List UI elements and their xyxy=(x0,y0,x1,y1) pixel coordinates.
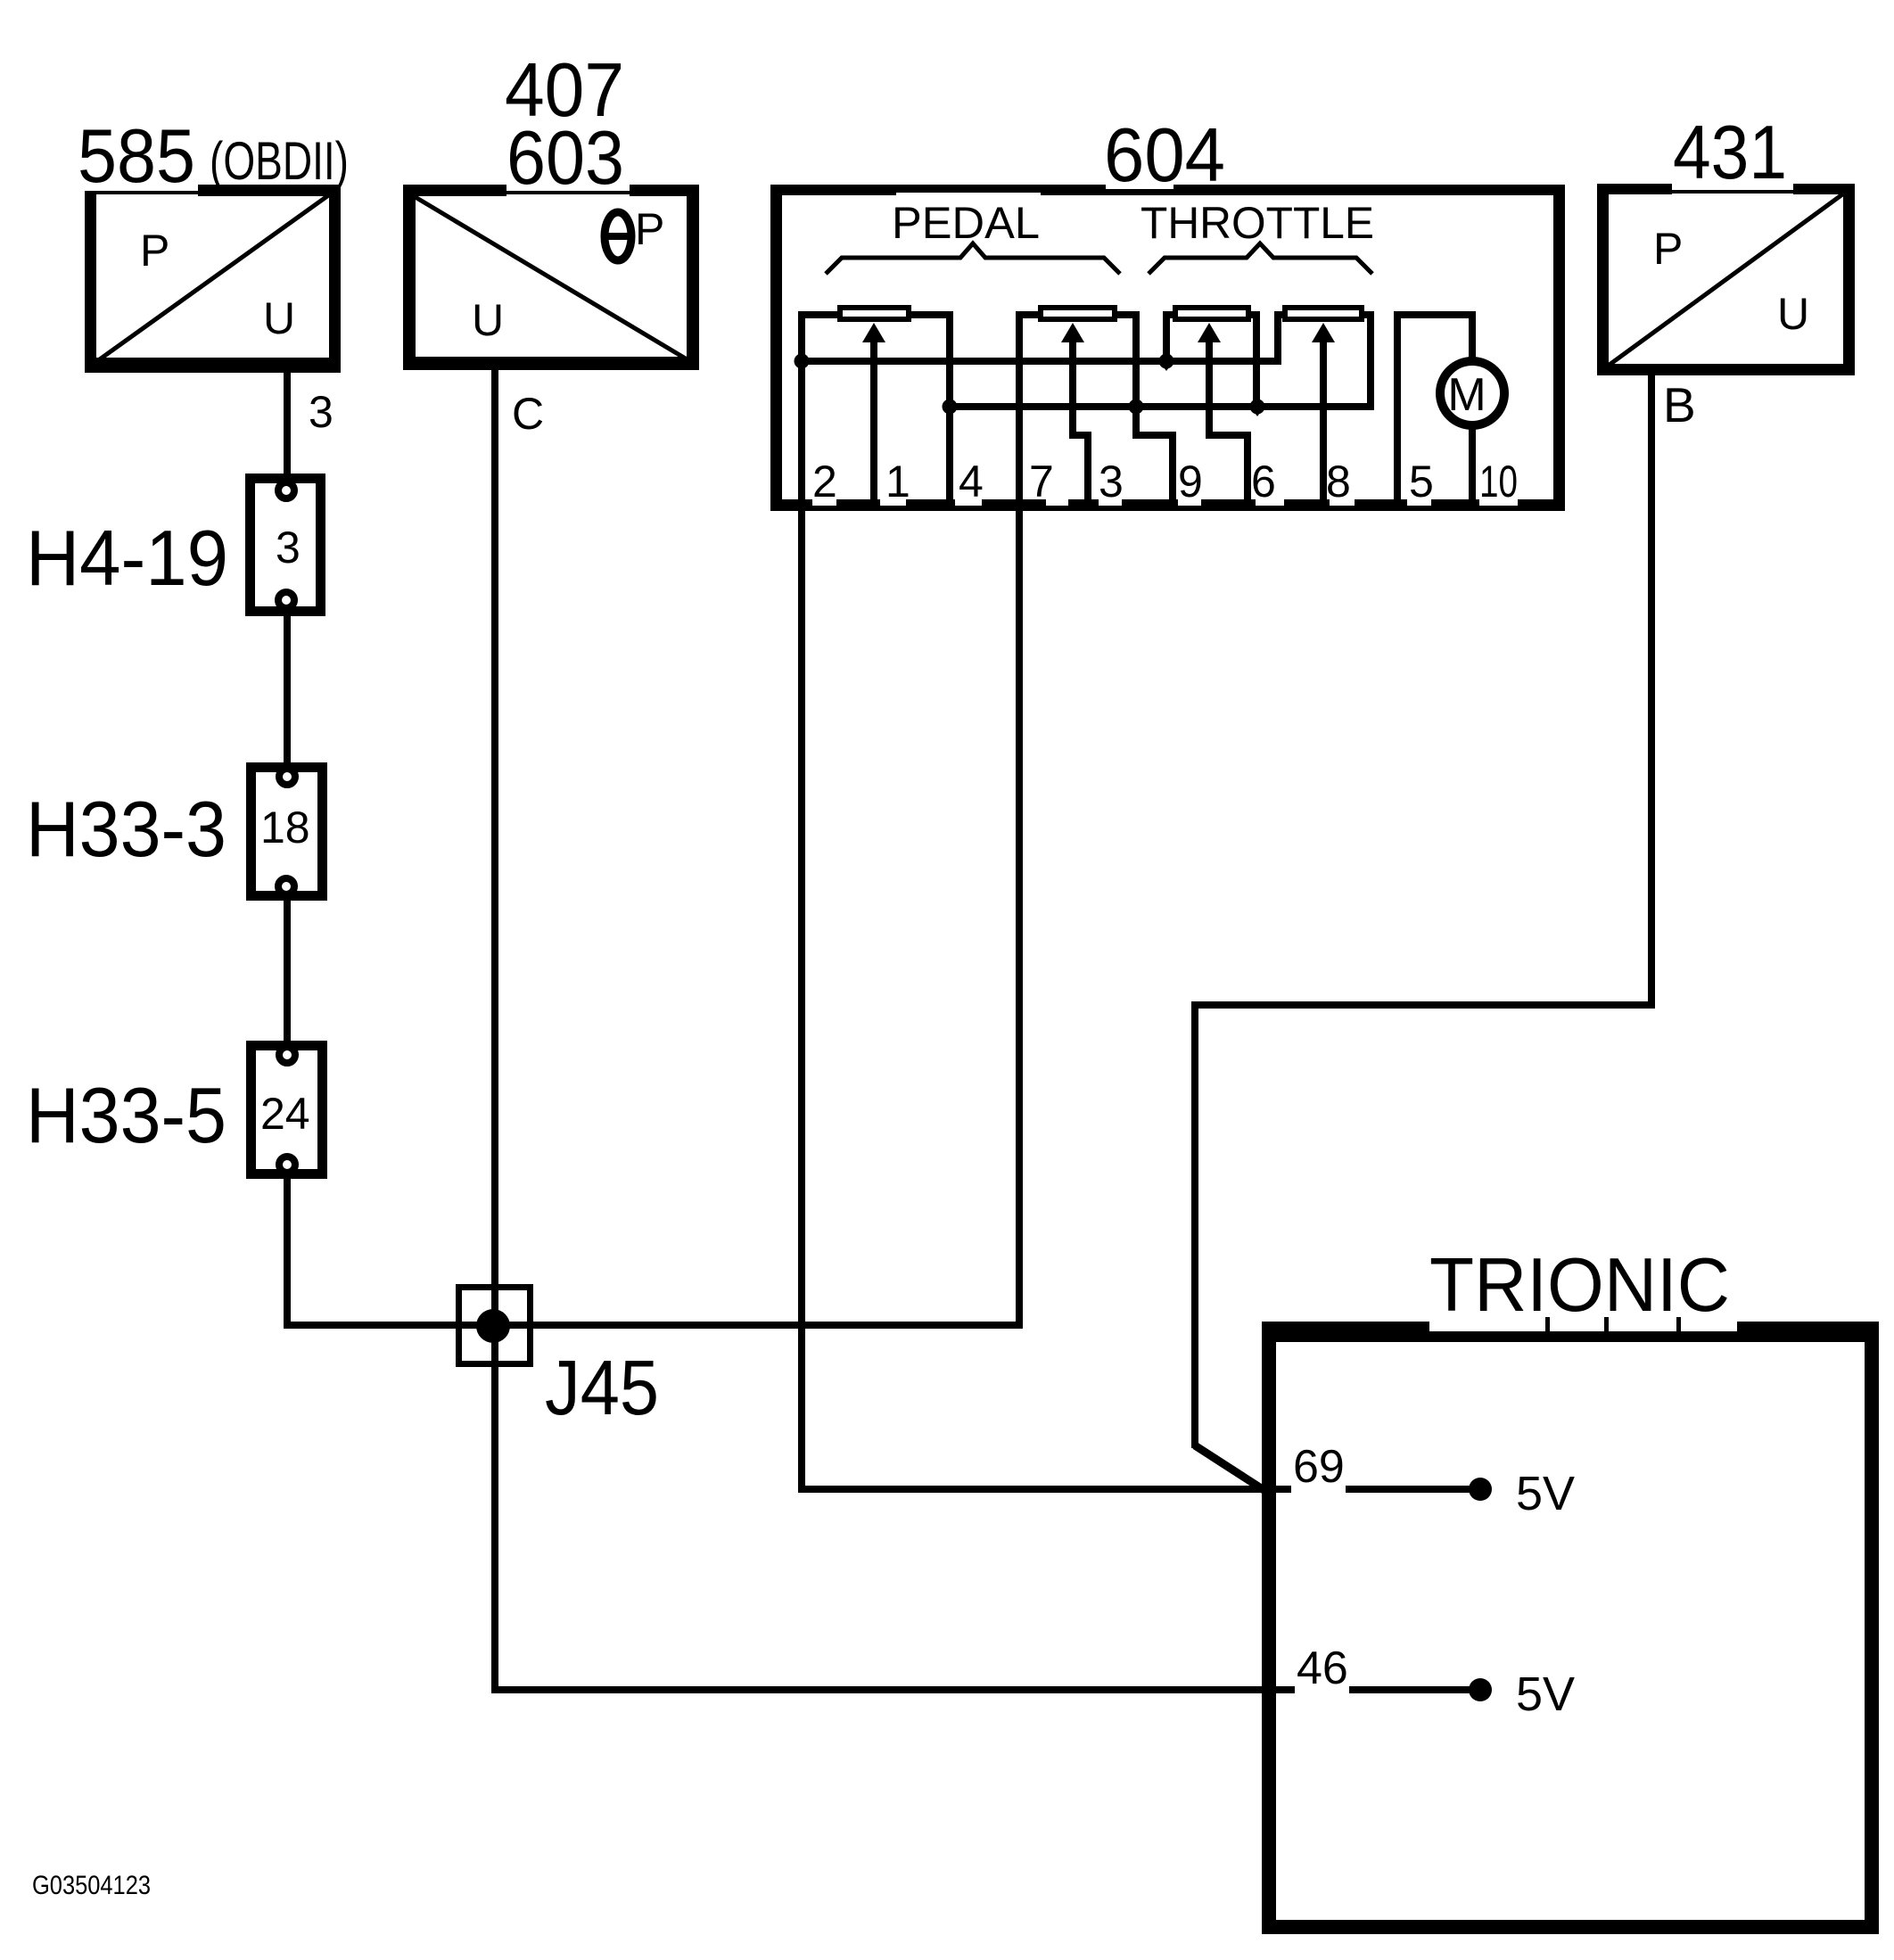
svg-text:24: 24 xyxy=(260,1089,310,1139)
connector H33-3 xyxy=(251,768,323,896)
junction dot bus2 x pot1 right xyxy=(943,399,958,415)
svg-text:M: M xyxy=(1447,369,1486,421)
svg-text:TRIONIC: TRIONIC xyxy=(1429,1243,1730,1328)
node 46 5V dot xyxy=(1469,1678,1492,1701)
theta-P symbol xyxy=(605,212,631,260)
brace under THROTTLE xyxy=(1149,243,1372,274)
pot P3 wiper wire to pin 6 xyxy=(1206,336,1213,439)
svg-text:5V: 5V xyxy=(1516,1668,1575,1721)
svg-text:H33-3: H33-3 xyxy=(26,785,226,873)
pot P2 left lead stub (pin 7) xyxy=(1016,311,1042,318)
connector H4-19 xyxy=(251,479,321,612)
wire horizontal run to J45 and pin7 riser corner xyxy=(284,1322,1023,1329)
svg-text:H4-19: H4-19 xyxy=(26,514,228,602)
svg-text:U: U xyxy=(472,295,504,345)
svg-text:69: 69 xyxy=(1293,1441,1345,1493)
svg-text:5V: 5V xyxy=(1516,1467,1575,1520)
svg-text:10: 10 xyxy=(1479,457,1518,506)
node 69 5V dot xyxy=(1469,1478,1492,1501)
svg-text:2: 2 xyxy=(812,457,837,506)
svg-text:H33-5: H33-5 xyxy=(26,1071,226,1159)
wire 604 pin 7 riser xyxy=(1016,314,1023,1329)
pot P4 wiper wire to pin 8 xyxy=(1320,336,1327,499)
431 box xyxy=(1597,190,1855,194)
svg-text:585: 585 xyxy=(78,114,195,199)
svg-text:7: 7 xyxy=(1029,457,1054,506)
svg-text:604: 604 xyxy=(1104,113,1225,198)
svg-text:9: 9 xyxy=(1178,457,1203,506)
svg-text:P: P xyxy=(635,204,664,254)
junction J45 square xyxy=(459,1288,531,1364)
junction dot bus1 x pin2 xyxy=(795,354,810,369)
svg-text:8: 8 xyxy=(1326,457,1351,506)
svg-text:5: 5 xyxy=(1409,457,1434,506)
motor loop pin 5 xyxy=(1394,311,1401,499)
svg-text:THROTTLE: THROTTLE xyxy=(1141,198,1374,248)
svg-text:18: 18 xyxy=(260,803,310,852)
svg-text:6: 6 xyxy=(1251,457,1276,506)
motor bottom wire to pin 10 xyxy=(1469,421,1476,499)
wire B diagonal into TRIONIC pin 69 xyxy=(1195,1445,1265,1491)
TRIONIC box xyxy=(1262,1322,1879,1342)
junction dot bus1 x pot3 left xyxy=(1159,354,1174,369)
diagonal 585 xyxy=(91,192,334,366)
potentiometer P3 xyxy=(1175,308,1248,319)
wire B second vertical xyxy=(1191,1001,1198,1448)
603 box xyxy=(403,191,699,194)
585 box xyxy=(85,191,198,194)
pot P1 right lead to pin 4 xyxy=(908,311,953,318)
white gap under 69 label xyxy=(1291,1484,1346,1495)
wire 603 pin C vertical through J45 down to 46 run xyxy=(491,363,498,1693)
pot P4 right lead to bus 2 xyxy=(1361,311,1374,318)
svg-text:3: 3 xyxy=(276,523,301,572)
svg-text:603: 603 xyxy=(506,116,624,201)
junction dot bus2 x pot3 right xyxy=(1250,399,1265,415)
svg-text:B: B xyxy=(1663,377,1696,432)
pot P3 left lead to bus 1 xyxy=(1163,311,1176,318)
svg-text:C: C xyxy=(512,389,544,439)
motor M xyxy=(1440,361,1504,425)
svg-text:J45: J45 xyxy=(545,1345,659,1431)
wire H33-5 down to J45 horizontal xyxy=(284,1174,291,1329)
svg-text:431: 431 xyxy=(1673,111,1787,195)
svg-text:3: 3 xyxy=(309,387,334,437)
svg-text:3: 3 xyxy=(1099,457,1124,506)
wire H33-3 to H33-5 xyxy=(284,896,291,1045)
pot P3 right lead to bus 2 xyxy=(1248,311,1260,318)
junction dot bus2 x pot2 right xyxy=(1129,399,1144,415)
connector H33-5 xyxy=(251,1046,323,1174)
wire 69 horizontal run to TRIONIC pin 69 xyxy=(798,1486,1480,1493)
604 internals: bus 1 xyxy=(798,358,1281,365)
wire 585 pin 3 to H4-19 xyxy=(284,366,291,477)
pot P2 right lead to pin 9 xyxy=(1114,311,1140,318)
pot P1 left lead stub xyxy=(798,311,841,318)
potentiometer P2 xyxy=(1041,308,1115,319)
svg-text:U: U xyxy=(263,293,295,343)
wire 604 pin 2 vertical xyxy=(798,314,805,1493)
potentiometer P4 xyxy=(1285,308,1362,319)
potentiometer P1 xyxy=(840,308,909,319)
pot P4 left lead to bus 1 xyxy=(1274,311,1286,318)
svg-text:PEDAL: PEDAL xyxy=(892,198,1040,248)
white gap under 46 label xyxy=(1295,1684,1349,1695)
604 box xyxy=(770,185,1565,195)
svg-text:G03504123: G03504123 xyxy=(32,1871,151,1900)
wire B horizontal run xyxy=(1191,1001,1655,1009)
svg-text:(OBDII): (OBDII) xyxy=(210,131,349,191)
pot P2 wiper wire to pin 3 xyxy=(1069,336,1076,439)
brace under PEDAL xyxy=(826,243,1120,274)
pin notches in 604 bottom bar xyxy=(812,499,836,506)
604 internals: bus 2 xyxy=(946,403,1374,410)
junction J45 dot xyxy=(476,1309,510,1343)
diagonal 603 xyxy=(409,194,693,363)
diagonal 431 xyxy=(1603,190,1849,369)
wire 46 horizontal run to TRIONIC pin 46 xyxy=(491,1686,1480,1693)
svg-text:1: 1 xyxy=(885,457,910,506)
svg-text:4: 4 xyxy=(959,457,984,506)
svg-text:P: P xyxy=(1653,224,1683,274)
pot P1 wiper wire to pin 1 xyxy=(870,336,877,499)
svg-text:46: 46 xyxy=(1297,1643,1348,1694)
wire H4-19 to H33-3 xyxy=(284,611,291,767)
svg-text:P: P xyxy=(140,226,169,276)
wire 431 pin B vertical xyxy=(1648,373,1655,1009)
svg-text:U: U xyxy=(1777,289,1809,339)
